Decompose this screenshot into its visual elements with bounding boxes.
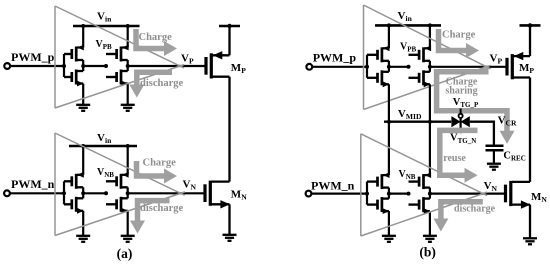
- arrow charge-sharing path (b): [437, 67, 515, 144]
- wire inv1 gate leads (b top): [367, 54, 377, 56]
- wire input gate tie vertical (b top): [366, 55, 368, 78]
- ground a top inverter 1: [76, 105, 90, 111]
- ground a top inverter 2: [121, 105, 135, 111]
- transistor M_N (b): [506, 181, 531, 209]
- transistor QB1P (PMOS, a bottom inverter 1): [72, 172, 84, 189]
- node inv2 input junction (a top): [104, 64, 108, 68]
- transistor M_P (b): [507, 52, 530, 79]
- transistor QB1N (NMOS, a bottom inverter 1): [72, 197, 84, 214]
- wire b-bot inv2 NMOS source to ground: [429, 211, 431, 236]
- ground M_N (a): [223, 235, 237, 241]
- supply terminal bar (a M_P): [219, 25, 240, 28]
- node a-top inv2 output junction: [126, 64, 130, 68]
- wire inter-stage node V_PB (b): [389, 66, 409, 68]
- transistor QB2N (NMOS, a bottom inverter 2): [117, 197, 128, 214]
- wire V_in rail (a top): [73, 25, 140, 28]
- transistor QC1N (NMOS, b top inverter 1): [378, 70, 390, 87]
- wire a-bot inv1 PMOS source to rail: [82, 146, 84, 175]
- ground a bottom inverter 2: [121, 236, 135, 242]
- node supply terminal (b M_P): [528, 23, 532, 27]
- wire output node V_N (a): [128, 192, 204, 194]
- wire TG to V_CR node (b): [470, 122, 494, 145]
- wire a-top inv1 output: [82, 60, 84, 71]
- arrow charge path (a bottom): [137, 161, 178, 184]
- wire b-bot inv1 output: [388, 188, 390, 199]
- node input junction (b bottom): [365, 192, 369, 196]
- node b-bot inv2 output junction: [428, 192, 432, 196]
- wire M_P drain to M_N drain (b): [529, 78, 531, 182]
- wire b-bot inv1 NMOS source to ground: [388, 211, 390, 236]
- transistor QC2N (NMOS, b top inverter 2): [419, 70, 430, 87]
- transistor QC2P (PMOS, b top inverter 2): [419, 45, 431, 62]
- wire PWM_p input (b): [312, 66, 367, 68]
- wire a-bot inv2 NMOS source to ground: [127, 211, 129, 236]
- wire inv2 gate leads (a bottom): [106, 180, 116, 182]
- transistor QA1N (NMOS, a top inverter 1): [72, 70, 84, 87]
- svg-text:(a): (a): [117, 246, 133, 261]
- arrow reuse path (b): [440, 130, 478, 182]
- transistor QB2P (PMOS, a bottom inverter 2): [117, 172, 129, 189]
- wire M_P source to supply (b): [529, 25, 531, 56]
- svg-text:Charge: Charge: [143, 158, 177, 169]
- transistor QD1P (PMOS, b bottom inverter 1): [378, 172, 390, 189]
- wire inter-stage node V_NB (b): [389, 193, 409, 195]
- wire shared vertical inv1 (b) top-NMOS source to bottom-PMOS source: [388, 84, 390, 175]
- node inv2 input junction (a bottom): [104, 191, 108, 195]
- ground M_N (b): [523, 238, 537, 244]
- ground C_REC (b): [487, 164, 501, 170]
- wire shared vertical inv2 (b) top-NMOS source to bottom-PMOS source: [429, 84, 431, 175]
- buffer triangle driver A2 (a bottom): [55, 133, 185, 236]
- wire a-bot inv1 output: [82, 187, 84, 198]
- svg-text:PWM_p: PWM_p: [313, 51, 357, 65]
- node PWM_n (b) input terminal: [306, 191, 312, 197]
- buffer triangle driver B2 (b bottom): [361, 134, 487, 236]
- wire M_N source to ground (b): [529, 205, 531, 239]
- svg-text:PWM_n: PWM_n: [311, 179, 355, 193]
- svg-text:sharing: sharing: [445, 86, 477, 97]
- arrow charge path (a top): [136, 29, 177, 56]
- transistor QD1N (NMOS, b bottom inverter 1): [378, 197, 390, 214]
- node input junction (a bottom): [62, 191, 66, 195]
- svg-text:discharge: discharge: [454, 204, 496, 215]
- wire a-top inv2 output: [127, 60, 129, 71]
- transistor QC1P (PMOS, b top inverter 1): [378, 45, 390, 62]
- ground b bottom inverter 1: [382, 236, 396, 242]
- node PWM_p (b) input terminal: [306, 64, 312, 70]
- node rail tap inv1 (b): [387, 23, 391, 27]
- wire input gate tie vertical (a top): [63, 54, 65, 77]
- svg-text:discharge: discharge: [140, 203, 184, 214]
- node inv2 input junction (b bottom): [407, 192, 411, 196]
- node a-bot inv1 output junction: [81, 191, 85, 195]
- arrow charge path (b top): [439, 29, 480, 58]
- svg-text:(b): (b): [419, 245, 436, 260]
- transistor QA1P (PMOS, a top inverter 1): [72, 45, 84, 62]
- ground a bottom inverter 1: [76, 236, 90, 242]
- wire inv2 gate leads (b top): [409, 54, 419, 56]
- wire input gate tie vertical (a bottom): [63, 181, 65, 204]
- wire inter-stage node V_NB (a): [83, 192, 106, 194]
- node rail tap inv2 (b): [428, 23, 432, 27]
- svg-text:PWM_p: PWM_p: [11, 50, 55, 64]
- wire a-bot inv2 PMOS source to rail: [127, 146, 129, 175]
- transmission gate TG (b): [451, 109, 469, 134]
- ground b bottom inverter 2: [423, 236, 437, 242]
- arrow discharge path (b): [433, 202, 482, 232]
- wire inv1 gate leads (a bottom): [64, 180, 71, 182]
- wire b-top inv2 PMOS source to rail: [429, 25, 431, 48]
- node rail tap inv1 (a bottom): [81, 144, 85, 148]
- wire a-bot inv1 NMOS source to ground: [82, 211, 84, 236]
- buffer triangle driver B1 (b top): [364, 5, 491, 110]
- node rail tap inv2 (a bottom): [126, 144, 130, 148]
- svg-text:Charge: Charge: [442, 30, 476, 41]
- wire a-top inv1 PMOS source to rail: [82, 26, 84, 48]
- node a-bot inv2 output junction: [126, 191, 130, 195]
- node V_MID junction inv1 (b): [387, 120, 391, 124]
- wire PWM_n input (a): [10, 192, 64, 194]
- svg-text:Charge: Charge: [139, 32, 173, 43]
- transistor QA2N (NMOS, a top inverter 2): [117, 70, 128, 87]
- node input junction (b top): [365, 65, 369, 69]
- node input junction (a top): [62, 64, 66, 68]
- svg-text:PWM_n: PWM_n: [11, 177, 55, 191]
- node b-top inv1 output junction: [387, 65, 391, 69]
- wire a-bot inv2 output: [127, 187, 129, 198]
- wire inv2 gate leads (b bottom): [409, 180, 419, 182]
- wire PWM_n input (b): [312, 193, 368, 195]
- node inv2 input junction (b top): [407, 65, 411, 69]
- node PWM_n (a) input terminal: [4, 190, 10, 196]
- wire V_in rail (a bottom): [69, 145, 137, 148]
- node b-bot inv1 output junction: [387, 192, 391, 196]
- wire inter-stage node V_PB (a): [83, 65, 106, 67]
- wire a-top inv1 NMOS source to ground: [82, 84, 84, 105]
- supply terminal bar (b M_P): [520, 24, 541, 27]
- wire inv2 gate leads (a top): [106, 53, 116, 55]
- node V_MID junction inv2 (b): [428, 120, 432, 124]
- node rail tap inv1 (a top): [81, 24, 85, 28]
- transistor QD2N (NMOS, b bottom inverter 2): [419, 197, 430, 214]
- node PWM_p (a) input terminal: [4, 63, 10, 69]
- node rail tap inv2 (a top): [126, 24, 130, 28]
- wire PWM_p input (a): [10, 65, 64, 67]
- wire inv1 gate leads (a top): [64, 53, 71, 55]
- wire output node V_N (b): [430, 193, 504, 195]
- transistor QA2P (PMOS, a top inverter 2): [117, 45, 129, 62]
- node a-top inv1 output junction: [81, 64, 85, 68]
- transistor M_N (a): [205, 181, 230, 209]
- capacitor C_REC (b): [486, 146, 504, 164]
- wire V_MID rail (b): [384, 120, 451, 122]
- buffer triangle driver A1 (a top): [55, 6, 184, 108]
- transistor M_P (a): [206, 51, 230, 78]
- svg-text:discharge: discharge: [140, 78, 184, 89]
- wire V_in rail (b): [375, 24, 441, 27]
- wire b-top inv2 output: [429, 61, 431, 72]
- wire output node V_P (b): [430, 66, 506, 68]
- wire M_N source to ground (a): [228, 204, 230, 235]
- wire b-bot inv2 output: [429, 188, 431, 199]
- wire b-top inv1 PMOS source to rail: [388, 25, 390, 48]
- arrow discharge path (a bottom): [130, 201, 170, 234]
- wire a-top inv2 NMOS source to ground: [127, 84, 129, 105]
- node supply terminal (a M_P): [227, 24, 231, 28]
- wire inv1 gate leads (b bottom): [367, 180, 377, 182]
- wire input gate tie vertical (b bottom): [366, 182, 368, 205]
- wire M_P drain to M_N drain (a): [228, 77, 230, 182]
- wire output node V_P (a): [128, 65, 205, 67]
- node b-top inv2 output junction: [428, 65, 432, 69]
- svg-text:reuse: reuse: [443, 153, 466, 164]
- wire M_P source to supply (a): [228, 26, 230, 55]
- wire b-top inv1 output: [388, 61, 390, 72]
- transistor QD2P (PMOS, b bottom inverter 2): [419, 172, 431, 189]
- arrow discharge path (a top): [129, 72, 172, 97]
- wire a-top inv2 PMOS source to rail: [127, 26, 129, 48]
